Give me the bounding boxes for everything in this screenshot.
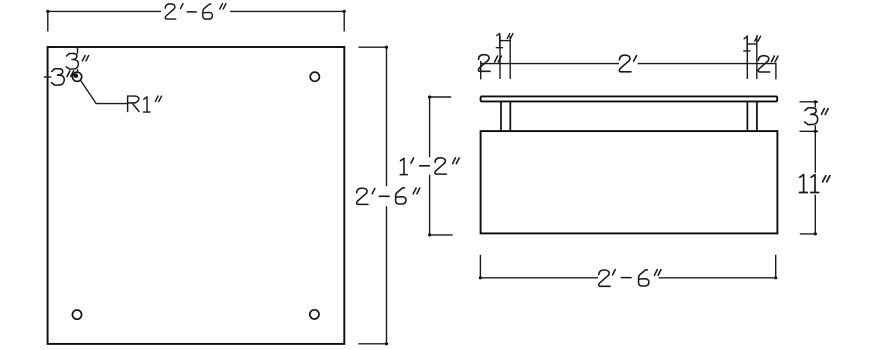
label 2'-6" (right of plan) xyxy=(357,188,420,205)
right side 11 inch bottom tick xyxy=(801,233,817,235)
label 2'-6" (top) xyxy=(165,4,226,19)
bottom dimension 2'-6" : stub left xyxy=(479,256,481,279)
right support leg (two lines) xyxy=(747,101,757,131)
right side 3/11 dimension vertical line xyxy=(814,102,816,234)
label R1" xyxy=(128,96,162,112)
table top plate (elevation) xyxy=(481,96,778,101)
right dimension 2'-6" : bottom extension line xyxy=(359,343,386,345)
label 1" (right support width) xyxy=(744,36,761,51)
label 3" (gap) xyxy=(805,108,828,125)
label 3" (horizontal offset) xyxy=(52,69,74,85)
right dimension 2'-6" : top extension line xyxy=(359,46,386,48)
lower cabinet body (elevation) xyxy=(481,131,778,233)
left bracket dimension 1'-2" : vertical line xyxy=(429,97,431,235)
hole bottom-left xyxy=(72,310,81,319)
extension lines above left support xyxy=(500,37,510,79)
hole top-left xyxy=(73,72,82,81)
label 1" (left support width) xyxy=(496,33,513,47)
leader line to hole xyxy=(81,80,128,103)
right side 3 inch dim ticks xyxy=(800,102,817,132)
label 2'-6" (bottom) xyxy=(599,270,661,287)
chain dimension line 2" / 2' / 2" xyxy=(481,63,776,65)
1'-2" bracket bottom arm xyxy=(430,234,452,236)
hole top-right xyxy=(310,72,319,81)
label 2" (left overhang) xyxy=(478,55,501,72)
label 2" (right overhang) xyxy=(758,56,778,72)
bottom dimension 2'-6" : stub right xyxy=(775,256,777,279)
label 1'-2" xyxy=(400,158,459,175)
top dimension 2'-6" : extension stub right xyxy=(343,11,345,30)
leader start dot xyxy=(74,74,78,78)
label 2' (between supports) xyxy=(619,55,636,72)
extension lines above right support xyxy=(747,36,757,78)
1 inch dim line (right support) xyxy=(747,43,757,45)
top dimension 2'-6" : extension stub left xyxy=(47,11,49,30)
1'-2" bracket top arm xyxy=(430,96,451,98)
dimension corner dots xyxy=(46,10,49,13)
extension line at plate right edge xyxy=(775,64,777,79)
label 3" (vertical offset) xyxy=(66,53,88,69)
3 inch vertical tick (hole offset from top edge) xyxy=(77,47,79,72)
1 inch dim line (left support) xyxy=(500,40,511,42)
bottom dimension 2'-6" : dimension line xyxy=(480,277,775,279)
hole bottom-right xyxy=(310,310,319,319)
left support leg (two lines) xyxy=(501,101,510,131)
square plate outline (plan view) xyxy=(48,47,345,344)
top dimension 2'-6" : dimension line xyxy=(48,10,344,12)
right dimension 2'-6" : dimension line xyxy=(386,47,388,344)
extension line at plate left edge xyxy=(480,62,482,79)
label 11" (cabinet height) xyxy=(799,175,829,193)
3 inch horizontal tick (hole offset from left edge) xyxy=(45,76,51,78)
